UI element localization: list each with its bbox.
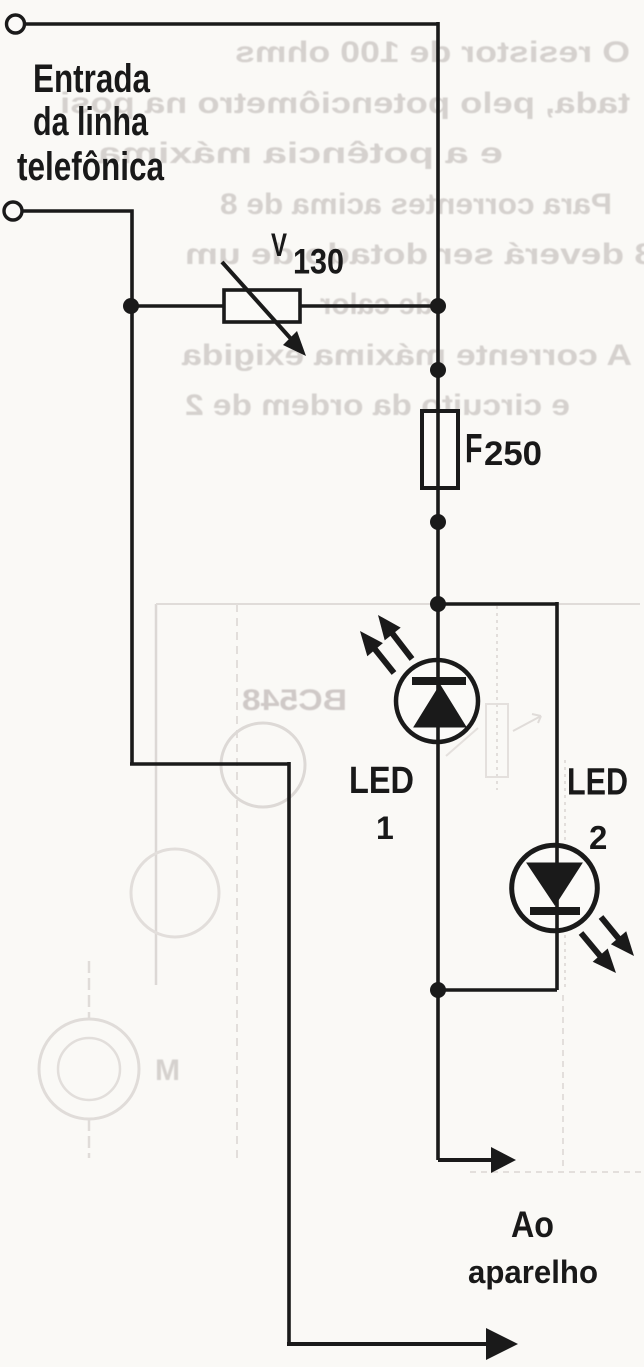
svg-text:aparelho: aparelho (468, 1254, 598, 1290)
wire bottom output with arrow (287, 1342, 498, 1346)
ghost mirrored label BC548 (242, 684, 347, 717)
LED2 wire through (555, 843, 559, 933)
svg-text:Ao: Ao (511, 1204, 554, 1245)
LED1 cathode bar (412, 677, 466, 685)
svg-text:e circuito da ordem de 2: e circuito da ordem de 2 (185, 389, 570, 422)
ghost transistor circle (221, 723, 305, 807)
junction node LED branch top (430, 596, 446, 612)
ghost mirrored paragraph line 4 (220, 188, 612, 221)
fuse internal wire (436, 411, 440, 488)
svg-text:1: 1 (376, 810, 394, 846)
ghost motor inner circle (58, 1038, 120, 1100)
LED2 light arrow C (601, 917, 619, 939)
ghost diagonal marks (446, 728, 478, 756)
junction node LED branch bottom (430, 982, 446, 998)
terminal J2 (4, 202, 22, 220)
svg-text:BC548: BC548 (242, 684, 347, 717)
svg-text:250: 250 (484, 435, 542, 473)
svg-text:8 deverá ser dotado de um: 8 deverá ser dotado de um (185, 238, 644, 271)
svg-text:Entrada: Entrada (33, 57, 151, 101)
svg-text:F: F (465, 426, 483, 472)
LED2 triangle (527, 863, 582, 905)
wire LED2 branch bottom (438, 988, 557, 992)
junction node below fuse (430, 514, 446, 530)
LED1 circle (396, 660, 478, 742)
svg-text:telefônica: telefônica (17, 145, 165, 189)
wire LED2 branch top (438, 602, 557, 606)
ghost mirrored paragraph line 3 (98, 137, 503, 170)
ghost circuit rectangle edge vertical left (155, 604, 158, 985)
ghost dashed horizontal bottom (470, 1171, 642, 1173)
varistor arrowhead (283, 331, 306, 356)
ghost circuit rectangle edge horizontal top (156, 603, 640, 605)
svg-text:LED: LED (567, 762, 628, 804)
wire from terminal J2 (22, 211, 132, 764)
svg-text:Para correntes acima de 8: Para correntes acima de 8 (220, 188, 612, 221)
ghost mirrored paragraph line 2 (60, 87, 630, 120)
ghost mirrored paragraph line 8 (185, 389, 570, 422)
junction node varistor left (123, 298, 139, 314)
LED1 light arrow B (374, 648, 394, 673)
LED1 triangle (414, 685, 466, 727)
svg-text:M: M (155, 1054, 180, 1087)
ghost mirrored label M (155, 1054, 180, 1087)
wire top from terminal J1 to main vertical (25, 22, 438, 26)
LED2 light arrow D (581, 933, 601, 957)
ghost circuit inner vertical (236, 604, 238, 1158)
fuse F250 body (422, 411, 458, 488)
wire left jog horizontal (130, 762, 289, 766)
LED2 circle (512, 845, 598, 931)
svg-text:V: V (271, 227, 287, 263)
svg-text:LED: LED (349, 760, 414, 802)
ghost mirrored paragraph line 5 (185, 238, 644, 271)
svg-text:A corrente máxima exigida: A corrente máxima exigida (182, 339, 632, 372)
arrowhead bottom output (486, 1328, 518, 1360)
ghost dotted vertical right (564, 760, 566, 990)
ghost arrow small (513, 714, 541, 731)
junction node varistor right (430, 298, 446, 314)
terminal J1 (7, 15, 25, 33)
wire left lower vertical (287, 762, 291, 1344)
LED2 light arrow C head (611, 931, 634, 956)
ghost mirrored paragraph line 7 (182, 339, 632, 372)
LED1 light arrow B head (360, 631, 383, 656)
ghost dotted vertical mid (496, 606, 498, 790)
svg-text:da linha: da linha (33, 100, 149, 144)
varistor V130 body (224, 290, 300, 322)
svg-text:2: 2 (589, 819, 607, 856)
ghost mirrored paragraph line 1 (235, 36, 630, 69)
junction node above fuse (430, 362, 446, 378)
arrowhead mid output (491, 1147, 516, 1173)
LED1 light arrow A head (378, 615, 401, 640)
svg-text:O resistor de 100 ohms: O resistor de 100 ohms (235, 36, 630, 69)
ghost resistor box (486, 704, 508, 777)
LED1 wire through (436, 658, 440, 744)
LED2 light arrow D head (593, 949, 616, 974)
ghost circle lower (131, 849, 219, 937)
ghost motor outer circle (39, 1019, 139, 1119)
varistor diagonal stroke (222, 262, 292, 340)
wire main vertical (436, 22, 440, 1160)
wire output mid with arrow (438, 1158, 494, 1162)
svg-text:130: 130 (293, 243, 344, 282)
wire varistor branch (132, 304, 438, 308)
ghost dashed vertical right (562, 995, 564, 1171)
ghost mirrored paragraph line 6 (320, 288, 433, 321)
wire LED2 vertical (555, 602, 559, 990)
LED2 anode bar (530, 907, 580, 915)
LED1 light arrow A (392, 633, 412, 659)
ghost motor stem (88, 961, 91, 1158)
